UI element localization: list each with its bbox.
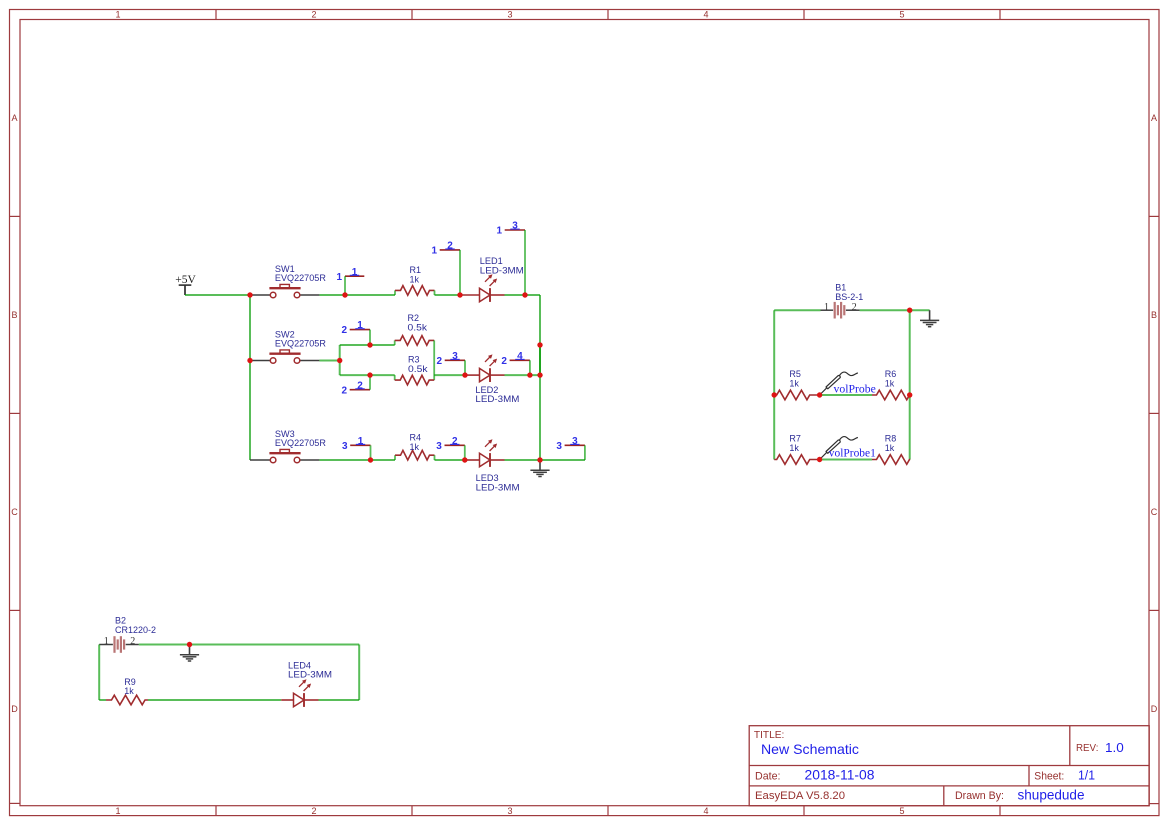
svg-text:C: C <box>1151 507 1158 517</box>
svg-text:0.5k: 0.5k <box>408 322 428 332</box>
svg-text:A: A <box>11 113 17 123</box>
svg-text:B: B <box>1151 310 1157 320</box>
svg-text:2: 2 <box>436 356 442 367</box>
svg-text:4: 4 <box>517 351 523 362</box>
svg-text:1k: 1k <box>410 274 420 284</box>
svg-text:1.0: 1.0 <box>1105 740 1124 755</box>
svg-text:0.5k: 0.5k <box>408 364 428 374</box>
svg-text:1: 1 <box>824 302 829 313</box>
svg-text:volProbe1: volProbe1 <box>829 448 876 460</box>
svg-text:1k: 1k <box>410 442 420 452</box>
svg-text:5: 5 <box>899 806 904 816</box>
svg-text:2: 2 <box>130 636 135 647</box>
svg-text:EasyEDA V5.8.20: EasyEDA V5.8.20 <box>755 790 845 802</box>
svg-text:BS-2-1: BS-2-1 <box>835 292 863 302</box>
svg-text:EVQ22705R: EVQ22705R <box>275 273 326 283</box>
svg-text:D: D <box>11 704 18 714</box>
svg-text:1k: 1k <box>789 378 799 388</box>
svg-text:LED-3MM: LED-3MM <box>480 265 524 275</box>
svg-text:4: 4 <box>703 10 708 20</box>
svg-text:3: 3 <box>342 441 348 452</box>
svg-text:3: 3 <box>512 221 518 232</box>
svg-text:1k: 1k <box>789 443 799 453</box>
svg-text:1: 1 <box>115 806 120 816</box>
svg-text:1: 1 <box>431 246 437 257</box>
svg-text:EVQ22705R: EVQ22705R <box>275 438 326 448</box>
svg-text:3: 3 <box>452 351 458 362</box>
svg-text:2018-11-08: 2018-11-08 <box>805 768 875 783</box>
svg-text:5: 5 <box>899 10 904 20</box>
svg-text:2: 2 <box>341 385 347 396</box>
svg-text:1: 1 <box>357 320 363 331</box>
svg-text:LED-3MM: LED-3MM <box>288 670 332 680</box>
svg-text:1: 1 <box>496 226 502 237</box>
svg-text:2: 2 <box>447 241 453 252</box>
svg-text:2: 2 <box>341 325 347 336</box>
svg-text:REV:: REV: <box>1076 743 1098 754</box>
svg-text:volProbe: volProbe <box>834 383 876 395</box>
svg-text:2: 2 <box>311 806 316 816</box>
svg-text:1: 1 <box>352 267 358 278</box>
svg-text:A: A <box>1151 113 1157 123</box>
svg-text:1: 1 <box>358 436 364 447</box>
svg-text:1k: 1k <box>124 686 134 696</box>
svg-text:1: 1 <box>104 636 109 647</box>
svg-text:3: 3 <box>436 441 442 452</box>
svg-text:LED-3MM: LED-3MM <box>475 394 519 404</box>
svg-text:2: 2 <box>501 356 507 367</box>
svg-text:TITLE:: TITLE: <box>754 730 785 741</box>
svg-text:1: 1 <box>336 272 342 283</box>
svg-text:C: C <box>11 507 18 517</box>
svg-text:2: 2 <box>852 302 857 313</box>
svg-text:EVQ22705R: EVQ22705R <box>275 339 326 349</box>
svg-text:1k: 1k <box>885 443 895 453</box>
svg-text:1: 1 <box>115 10 120 20</box>
svg-text:D: D <box>1151 704 1158 714</box>
svg-text:LED-3MM: LED-3MM <box>476 482 520 492</box>
svg-text:3: 3 <box>507 10 512 20</box>
svg-text:Sheet:: Sheet: <box>1034 771 1064 783</box>
svg-text:3: 3 <box>572 436 578 447</box>
svg-text:2: 2 <box>357 380 363 391</box>
svg-text:1/1: 1/1 <box>1078 768 1095 783</box>
svg-text:shupedude: shupedude <box>1018 787 1085 802</box>
svg-text:New Schematic: New Schematic <box>761 741 859 757</box>
svg-text:Date:: Date: <box>755 771 781 783</box>
svg-text:4: 4 <box>703 806 708 816</box>
svg-text:3: 3 <box>507 806 512 816</box>
svg-text:1k: 1k <box>885 378 895 388</box>
svg-text:B: B <box>11 310 17 320</box>
svg-text:3: 3 <box>556 441 562 452</box>
svg-text:+5V: +5V <box>175 274 196 286</box>
svg-text:2: 2 <box>452 436 458 447</box>
svg-text:2: 2 <box>311 10 316 20</box>
svg-text:Drawn By:: Drawn By: <box>955 790 1004 802</box>
svg-text:CR1220-2: CR1220-2 <box>115 625 156 635</box>
